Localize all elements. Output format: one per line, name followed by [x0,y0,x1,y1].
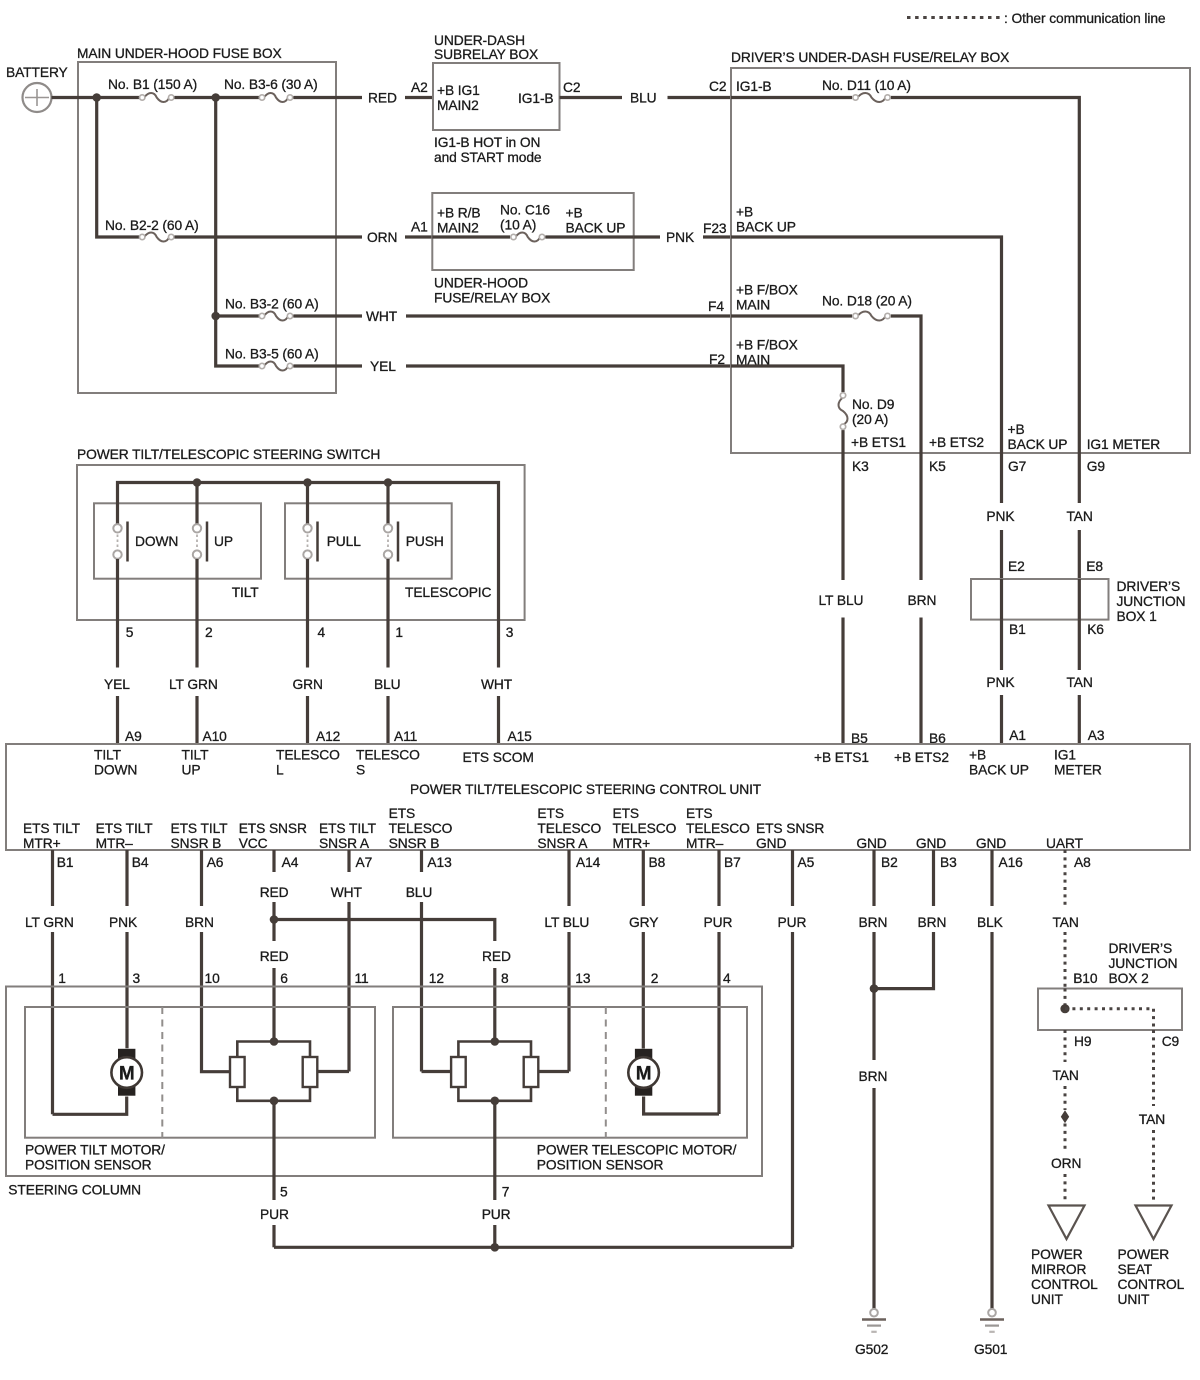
control unit ETS TELESCO MTR+ label [613,806,677,851]
switch pin 2 label [205,625,213,640]
wire BLU to A11 [386,696,389,744]
svg-text:SNSR A: SNSR A [537,836,588,851]
pin 5 label below column [280,1185,288,1200]
svg-text:8: 8 [501,971,509,986]
wire bus to UP contact [195,483,198,525]
svg-text:C9: C9 [1162,1034,1180,1049]
svg-text:UNDER-DASH: UNDER-DASH [434,33,525,48]
wire color PUR label pin5 [260,1207,289,1222]
svg-text:L: L [276,763,284,778]
steering switch title [77,447,380,462]
wire E2 through junction box 1 [1000,579,1003,620]
wire PNK to junction box 1 E2 [1000,530,1003,579]
pin E8 label [1086,559,1103,574]
pin K3 label [852,459,869,474]
fuse B2-2 value label [105,218,199,233]
svg-text:F2: F2 [709,352,725,367]
svg-text:UNIT: UNIT [1031,1292,1063,1307]
wire A6 to BRN gap [200,850,203,906]
wire color RED label [368,91,397,106]
svg-text:4: 4 [318,625,326,640]
pin F4 label [708,299,724,314]
svg-text:UART: UART [1046,836,1084,851]
wire G9 to TAN gap [1078,453,1081,503]
wire color BRN label lower [859,1069,888,1084]
wire RED to junction [272,902,275,941]
svg-text:DRIVER’S: DRIVER’S [1117,579,1181,594]
wire B4 to PNK gap [125,850,128,906]
svg-text:A4: A4 [282,855,299,870]
svg-text:SNSR B: SNSR B [389,836,440,851]
svg-text:13: 13 [575,971,591,986]
wire color ORN label [1051,1156,1081,1171]
tilt motor M [111,1049,142,1096]
pin A10 label [203,729,228,744]
wire GRN to A12 [306,696,309,744]
svg-text:A9: A9 [125,729,142,744]
svg-text:STEERING COLUMN: STEERING COLUMN [8,1183,141,1198]
power seat control unit label [1118,1247,1185,1307]
svg-text:B3: B3 [940,855,957,870]
ground G502 label [855,1342,888,1357]
wire color ORN label [367,230,397,245]
pin B2 label [881,855,898,870]
pin K5 label [929,459,946,474]
svg-text:2: 2 [651,971,659,986]
svg-text:B4: B4 [132,855,149,870]
telescopic motor M [628,1049,659,1096]
svg-text:TELESCO: TELESCO [537,821,601,836]
svg-text:ETS: ETS [389,806,416,821]
wire RED to subrelay box [405,96,433,99]
svg-text:1: 1 [58,971,66,986]
wire PUR down to bottom bus [791,932,794,1247]
fuse No. B2-2 (60 A) [140,233,174,242]
svg-text:E2: E2 [1008,559,1025,574]
node tilt sensor bottom [270,1097,279,1106]
svg-text:A7: A7 [356,855,373,870]
svg-text:2: 2 [205,625,213,640]
wire BRN down pin10 [200,932,203,1070]
switch DOWN label [135,534,178,549]
wire color LT BLU label A14 [544,915,589,930]
svg-text:TILT: TILT [232,585,260,600]
wire fuse B1 to fuse B3-6 [175,96,260,99]
svg-text:MAIN UNDER-HOOD FUSE BOX: MAIN UNDER-HOOD FUSE BOX [77,46,282,61]
arrow to power seat control unit [1136,1206,1172,1240]
svg-text:+B ETS2: +B ETS2 [929,435,984,450]
svg-text:MTR–: MTR– [96,836,134,851]
pin B3 label [940,855,957,870]
pin 13 label [575,971,591,986]
wire color WHT label pin3 [481,677,513,692]
fuse D9 value label [852,397,895,427]
svg-text:DRIVER’S: DRIVER’S [1109,941,1173,956]
wire B1 to PNK gap lower [1000,620,1003,670]
svg-text:ETS: ETS [537,806,564,821]
svg-text:MTR+: MTR+ [613,836,651,851]
under-hood fuse/relay box [432,193,633,270]
pin A6 label [207,855,224,870]
svg-text:BLU: BLU [406,885,433,900]
wire A7 to WHT gap [347,850,350,872]
svg-text:DOWN: DOWN [135,534,178,549]
wire WHT to driver box F4 [406,314,731,317]
svg-text:BACK UP: BACK UP [566,221,626,236]
wire tilt sensor bottom to pin5 gap [272,1101,275,1200]
svg-text:B1: B1 [57,855,74,870]
wire pin4 to GRN gap [306,620,309,668]
wire branch down to B2-2 row [97,98,139,238]
wire bus to PULL contact [306,483,309,525]
driver's junction box 2 [1038,989,1182,1031]
svg-text:A2: A2 [411,80,428,95]
svg-text:BRN: BRN [908,593,937,608]
control unit title [410,782,762,797]
svg-text:IG1-B: IG1-B [518,91,554,106]
wire DOWN to box bottom [116,559,119,620]
wire color PNK label B4 [109,915,138,930]
switch pin 5 label [126,625,134,640]
fuse No. D18 (20 A) [853,312,890,321]
wire pin13 to telescopic sensor right [538,1070,569,1073]
wire K6 to TAN gap lower [1078,620,1081,670]
svg-text:BRN: BRN [918,915,947,930]
node junction at B3-2 row [211,312,220,321]
wire color BLU label pin1 [374,677,401,692]
fuse No. B3-5 (60 A) [259,362,292,371]
pin A1 label [411,220,428,235]
wire color TAN label G9 upper [1067,509,1093,524]
driver's junction box 2 label [1109,941,1178,986]
wire BRN to B6 [919,618,922,745]
control unit ETS TELESCO MTR- label [686,806,750,851]
svg-text:TELESCO: TELESCO [356,748,420,763]
svg-text:+B IG1: +B IG1 [437,83,480,98]
switch pin 3 label [506,625,514,640]
wire pin12 to telescopic sensor left [422,1070,452,1073]
svg-text:CONTROL: CONTROL [1118,1277,1185,1292]
svg-text:No. B3-2 (60 A): No. B3-2 (60 A) [225,297,319,312]
driver box IG1 METER label [1087,437,1161,452]
control unit +B ETS2 label [894,750,949,765]
wire fuse B3-6 to RED gap [293,96,362,99]
wire B3 to BRN gap [932,850,935,906]
svg-text:+B: +B [1008,422,1025,437]
driver box +B ETS2 label [929,435,984,450]
wire color BRN label B2 [859,915,888,930]
wire ORN to under-hood relay box [405,235,433,238]
svg-text:WHT: WHT [366,309,398,324]
wire BRN to ground G502 [872,1088,875,1309]
wire A5 to PUR gap [791,850,794,906]
driver box +B BACK UP label [1008,422,1068,452]
svg-text:A11: A11 [394,729,417,744]
wire B7 to PUR gap [717,850,720,906]
pin F23 label [703,221,727,236]
subrelay +B IG1 MAIN2 label [437,83,480,113]
svg-text:B2: B2 [881,855,898,870]
svg-text:BOX 2: BOX 2 [1109,971,1149,986]
dotted wire ORN to mirror arrow [1064,1174,1067,1203]
driver box +B ETS1 label [851,435,906,450]
svg-text:A3: A3 [1088,728,1105,743]
wire pin4 to telescopic motor minus [644,1097,719,1115]
control unit ETS SNSR GND label [756,821,824,851]
svg-text:F23: F23 [703,221,727,236]
control unit GND label B2 [856,836,886,851]
svg-text:3: 3 [133,971,141,986]
pin F2 label [709,352,725,367]
svg-text:METER: METER [1054,763,1102,778]
svg-text:WHT: WHT [481,677,513,692]
svg-text:A14: A14 [576,855,601,870]
driver's junction box 1 [971,579,1109,620]
svg-text:ETS TILT: ETS TILT [319,821,377,836]
svg-text:A6: A6 [207,855,224,870]
svg-text:A16: A16 [999,855,1024,870]
pin 7 label below column [502,1185,510,1200]
control unit box [6,744,1190,850]
wire A16 to BLK gap [990,850,993,906]
wire PULL to box bottom [306,559,309,620]
wire K5 to BRN gap [919,453,922,580]
wire bus to PUSH contact [386,483,389,525]
pin 12 label [429,971,444,986]
pin A14 label [576,855,601,870]
wire GRY down pin2 to telescopic motor [642,932,645,1049]
power tilt motor caption [25,1143,165,1173]
wire fuse B3-2 to WHT gap [293,314,362,317]
svg-text:K3: K3 [852,459,869,474]
pin A12 label [316,729,340,744]
svg-text:VCC: VCC [239,836,268,851]
power telescopic motor caption [537,1143,737,1173]
under-hood +B BACK UP label [566,206,626,236]
svg-text:E8: E8 [1086,559,1103,574]
svg-text:+B ETS1: +B ETS1 [814,750,869,765]
svg-text:POWER TILT MOTOR/: POWER TILT MOTOR/ [25,1143,165,1158]
wire branch down to B3-2 and B3-5 rows [216,98,259,367]
svg-text:B8: B8 [649,855,666,870]
node telescopic sensor top [491,1037,500,1046]
svg-text:TAN: TAN [1053,1068,1079,1083]
legend text [1004,11,1166,26]
wire LT BLU to B5 [841,618,844,745]
control unit TELESCO S label [356,748,420,778]
dotted wire B10 into box [1064,989,1067,1009]
svg-text:11: 11 [355,971,369,986]
wire junction to fuse B3-2 [216,314,259,317]
svg-text:C2: C2 [709,79,726,94]
control unit ETS TELESCO SNSR A label [537,806,601,851]
svg-text:TAN: TAN [1067,675,1093,690]
svg-text:BLU: BLU [630,91,657,106]
steering column box [6,987,762,1177]
svg-text:BACK UP: BACK UP [1008,437,1068,452]
svg-text:ETS TILT: ETS TILT [171,821,229,836]
switch PULL label [327,534,362,549]
pin 2 label [651,971,659,986]
svg-text:A13: A13 [427,855,452,870]
svg-text:GND: GND [756,836,786,851]
wire color PUR label A5 [778,915,807,930]
pin E2 label [1008,559,1025,574]
node BRN junction [870,984,879,993]
svg-text:IG1 METER: IG1 METER [1087,437,1161,452]
fuse D11 value label [822,78,911,93]
wire UP to box bottom [195,559,198,620]
pin B8 label [649,855,666,870]
wire E8 through junction box 1 [1078,579,1081,620]
pin B5 label [851,731,868,746]
under-dash subrelay box [433,63,560,130]
wire inside under-hood box right [545,235,633,238]
svg-text:C2: C2 [563,80,580,95]
switch DOWN contacts [113,522,127,562]
wire BLU to driver box C2 [668,96,732,99]
wire fuse D18 to K5 drop [891,316,921,453]
svg-text:YEL: YEL [104,677,130,692]
wire color BRN label A6 [185,915,214,930]
telescopic switch inner box [285,503,452,578]
legend dotted other-communication line sample [907,16,1001,19]
svg-text:POWER TELESCOPIC MOTOR/: POWER TELESCOPIC MOTOR/ [537,1143,737,1158]
wire fuse D11 to G9 drop [891,98,1079,454]
control unit IG1 METER label [1054,748,1102,778]
svg-text:MIRROR: MIRROR [1031,1262,1086,1277]
svg-text:MTR–: MTR– [686,836,724,851]
wire pin11 to tilt sensor right [317,1070,349,1073]
svg-text:6: 6 [280,971,288,986]
svg-text:POWER: POWER [1031,1247,1083,1262]
control unit GND label A16 [976,836,1006,851]
wire color TAN label A8 [1053,915,1079,930]
pin C2 label at driver box [709,79,726,94]
under-dash subrelay box title [434,33,538,62]
ground G502 symbol [862,1309,886,1332]
driver box +B F/BOX MAIN F4 label [736,283,798,313]
svg-text:GRY: GRY [629,915,658,930]
wire PUR pin7 to bottom bus [493,1225,496,1247]
wire LT GRN to A10 [195,696,198,744]
wire pin5 to YEL gap [116,620,119,668]
svg-text:PUR: PUR [704,915,733,930]
wire F2 to fuse D9 [731,366,843,392]
bus junction node PUSH [384,478,393,487]
svg-text:UP: UP [214,534,233,549]
dotted wire splice to ORN gap [1064,1124,1067,1151]
svg-text:No. B2-2 (60 A): No. B2-2 (60 A) [105,218,199,233]
wire YEL to driver box F2 [406,364,731,367]
fuse B3-6 value label [224,77,318,92]
svg-text:5: 5 [280,1185,288,1200]
svg-text:PUR: PUR [482,1207,511,1222]
fuse No. B3-2 (60 A) [259,312,292,321]
node junction box 2 node [1060,1004,1069,1013]
ground G501 symbol [980,1309,1004,1332]
driver's under-dash fuse/relay box title [731,50,1009,65]
svg-text:1: 1 [395,625,403,640]
wire B8 to GRY gap [642,850,645,906]
svg-text:No. B3-5 (60 A): No. B3-5 (60 A) [225,347,319,362]
svg-text:12: 12 [429,971,444,986]
svg-text:ETS TILT: ETS TILT [23,821,81,836]
wire PUR bottom bus [274,1246,793,1249]
svg-text:10: 10 [205,971,221,986]
wire WHT down pin11 [347,902,350,1072]
svg-text:M: M [636,1063,652,1084]
svg-text:BRN: BRN [859,1069,888,1084]
dotted wire TAN to splice [1064,1086,1067,1110]
svg-text:A1: A1 [411,220,428,235]
control unit UART label [1046,836,1084,851]
wire color LT GRN label B1 [25,915,74,930]
switch PUSH label [406,534,444,549]
dotted wire H9 down [1064,1030,1067,1062]
fuse No. D11 (10 A) [853,93,890,102]
svg-text:ETS SNSR: ETS SNSR [239,821,307,836]
tilt position sensor bridge [230,1042,317,1101]
svg-text:ETS SNSR: ETS SNSR [756,821,824,836]
svg-text:7: 7 [502,1185,510,1200]
svg-text:BOX 1: BOX 1 [1117,609,1157,624]
switch UP contacts [193,522,207,562]
svg-text:GND: GND [976,836,1006,851]
svg-text:RED: RED [260,885,289,900]
pin 1 label [58,971,66,986]
svg-text:JUNCTION: JUNCTION [1117,594,1186,609]
control unit ETS SCOM label [463,750,534,765]
wire BRN down to ground junction [872,932,875,1060]
wire color PNK label G7 upper [986,509,1015,524]
svg-text:PUSH: PUSH [406,534,444,549]
fuse B3-2 value label [225,297,319,312]
svg-text:IG1: IG1 [1054,748,1076,763]
under-hood fuse/relay box caption [434,276,550,306]
svg-text:F4: F4 [708,299,724,314]
pin 10 label [205,971,221,986]
main under-hood fuse box [78,62,336,393]
switch pin 1 label [395,625,403,640]
fuse B3-5 value label [225,347,319,362]
control unit ETS TELESCO SNSR B label [389,806,453,851]
pin 3 label [133,971,141,986]
wire color YEL label pin5 [104,677,130,692]
wire pin1 to tilt motor minus [53,1097,127,1115]
svg-text:PNK: PNK [109,915,138,930]
svg-text:BACK UP: BACK UP [736,220,796,235]
pin A15 label [508,729,533,744]
power telescopic motor/position sensor box [393,1007,747,1138]
svg-text:+B: +B [736,205,753,220]
fuse No. B3-6 (30 A) [259,93,292,102]
svg-text:POSITION SENSOR: POSITION SENSOR [537,1158,664,1173]
svg-text:MTR+: MTR+ [23,836,61,851]
wire fuse B2-2 to ORN gap [175,235,363,238]
wire pin2 to LT GRN gap [195,620,198,668]
tilt box dashed separator [161,1007,163,1138]
battery symbol [23,83,52,112]
svg-text:TELESCO: TELESCO [686,821,750,836]
svg-text:+B ETS1: +B ETS1 [851,435,906,450]
ground G501 label [974,1342,1007,1357]
wire color TAN label C9 [1139,1112,1165,1127]
pin A16 label [999,855,1024,870]
svg-text:+B R/B: +B R/B [437,206,481,221]
svg-text:and START mode: and START mode [434,150,542,165]
bus junction node PULL [303,478,312,487]
